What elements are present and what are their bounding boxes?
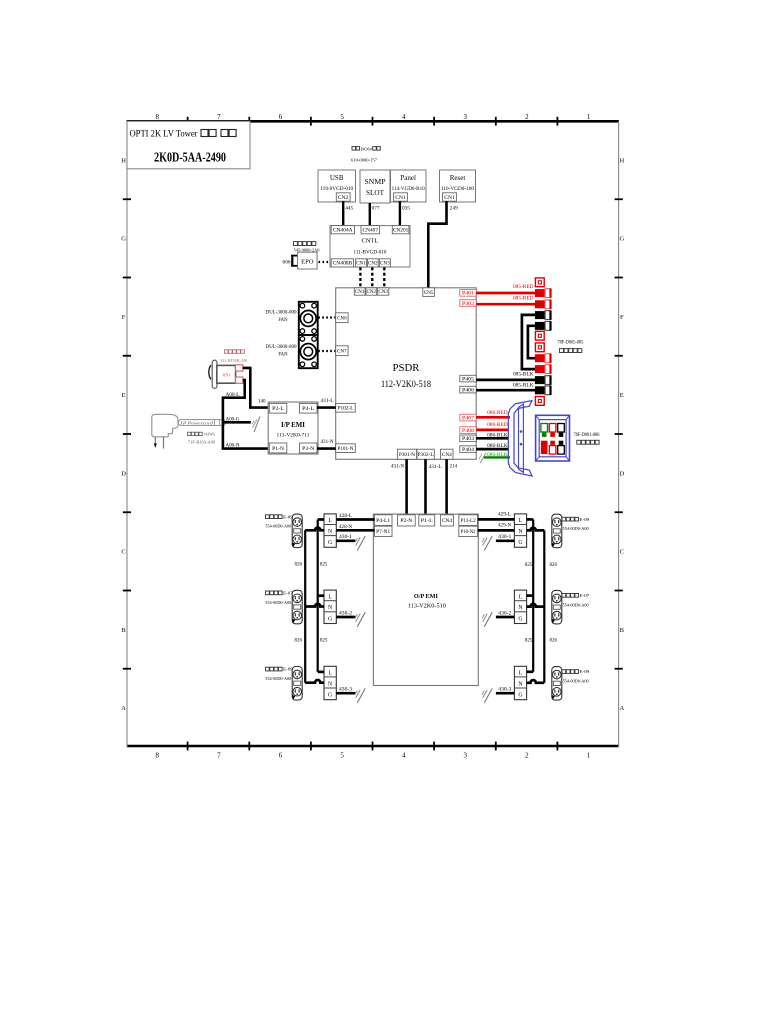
box IP EMI 113-V2K0-711 [268, 402, 318, 454]
connector CN404A on CNTL [331, 226, 354, 234]
box OP EMI 113-V2K0-510 [373, 514, 478, 685]
EPO terminal symbol 606 [291, 255, 293, 267]
wire 085-RED PSDR P402 to battery terminal [476, 303, 535, 306]
svg-text:085-BLK: 085-BLK [513, 383, 534, 388]
wire A00-G to chassis ground [223, 421, 251, 424]
wire 085-BLK PSDR P406 to battery terminal [476, 389, 535, 392]
svg-text:085-RED: 085-RED [513, 285, 534, 290]
svg-text:E-09: E-09 [580, 669, 590, 674]
svg-text:E-09: E-09 [283, 667, 293, 672]
ring terminal internal battery 2 [535, 331, 544, 340]
svg-text:L: L [519, 518, 523, 524]
right bus stub N row 3 with hop [527, 680, 545, 683]
left outlet icon row 2 [292, 590, 302, 624]
connector P405 on PSDR right [460, 375, 476, 382]
right outlet label row 2 [562, 594, 566, 598]
svg-text:7: 7 [217, 752, 221, 760]
wire 431-L PSDR P302-L to OP EMI P1-L [424, 459, 427, 515]
svg-text:6: 6 [279, 113, 283, 121]
svg-text:554-00D0-A00: 554-00D0-A00 [265, 524, 292, 529]
svg-text:035: 035 [402, 205, 410, 211]
dotted wire fan1 to CN6 [318, 316, 335, 318]
connector P407 on PSDR right [460, 414, 476, 421]
svg-text:428-N: 428-N [339, 525, 352, 530]
ring terminal internal battery 3 [535, 343, 544, 352]
svg-text:F: F [122, 314, 126, 321]
wire 086-BLK green ground to external connector [484, 456, 510, 458]
svg-text:E-07: E-07 [283, 591, 293, 596]
svg-text:7: 7 [217, 113, 221, 121]
svg-text:2K0D-5AA-2490: 2K0D-5AA-2490 [154, 150, 226, 165]
box CNTL 111-BVGD-010 [330, 226, 410, 267]
connector P1-N on IP EMI [269, 443, 287, 453]
svg-text:870: 870 [223, 373, 231, 378]
right outlet icon row 2 [552, 590, 562, 624]
connector P408 on PSDR right [460, 427, 476, 434]
svg-text:P408: P408 [462, 429, 475, 434]
sheet border frame [127, 120, 620, 123]
svg-text:8: 8 [156, 113, 160, 121]
svg-text:086-RED: 086-RED [487, 411, 508, 416]
wire 431-N IP EMI P3-N to PSDR P101-N [317, 447, 336, 450]
wire 430-3 left ground [336, 692, 355, 695]
svg-text:D: D [121, 470, 126, 477]
left outlet icon row 1 [292, 514, 302, 548]
svg-text:L: L [328, 671, 332, 677]
svg-text:P101-N: P101-N [338, 447, 354, 452]
wire 249 Reset CN1 to PSDR CN5 [428, 201, 446, 288]
right bus stub L row 3 [527, 670, 534, 673]
svg-text:ISO60: ISO60 [361, 146, 373, 151]
left bus stub L row 3 [318, 671, 324, 674]
svg-text:P406: P406 [462, 388, 475, 393]
svg-text:P402: P402 [462, 302, 475, 307]
left outlet label row 2 [266, 591, 270, 595]
left outlet icon row 3 [292, 667, 302, 701]
svg-text:G: G [328, 616, 332, 622]
svg-text:G: G [121, 236, 126, 243]
connector P101-N on PSDR left [336, 444, 356, 453]
label above SNMP slot [352, 147, 356, 151]
svg-text:L: L [328, 594, 332, 600]
svg-text:113-V2K0-711: 113-V2K0-711 [277, 433, 310, 439]
left outlet row 2 terminal block L/N/G [324, 590, 336, 623]
svg-text:P3-N: P3-N [302, 446, 314, 452]
svg-text:CN5: CN5 [424, 291, 434, 296]
svg-text:430-1: 430-1 [498, 535, 512, 540]
connector CN1 on CNTL bottom [356, 259, 367, 267]
svg-text:086-BLK: 086-BLK [487, 453, 508, 458]
connector P7-N1 on OP EMI [375, 526, 393, 536]
svg-text:78F-D081-086: 78F-D081-086 [574, 433, 601, 438]
svg-text:A00-L: A00-L [226, 393, 240, 398]
faston terminal red P402 [535, 300, 545, 308]
svg-text:086-BLK: 086-BLK [487, 434, 508, 439]
svg-text:G: G [328, 693, 332, 699]
faston terminal red P401 [535, 289, 545, 297]
box SNMP SLOT [360, 170, 390, 203]
left bus 825 vertical [317, 520, 319, 672]
svg-text:119-0VGD-010: 119-0VGD-010 [320, 187, 354, 192]
svg-text:430-3: 430-3 [339, 688, 353, 693]
svg-text:086-RED: 086-RED [487, 423, 508, 428]
svg-text:P403: P403 [462, 437, 475, 442]
svg-text:086-BLK: 086-BLK [487, 444, 508, 449]
svg-text:554-00D0-A00: 554-00D0-A00 [563, 526, 590, 531]
dashed wires CNTL CN1-CN3 to PSDR CN1-CN3 [359, 267, 361, 287]
title block box [127, 121, 250, 169]
svg-text:825: 825 [525, 639, 533, 644]
box EPO [298, 252, 318, 269]
svg-text:FAN: FAN [278, 318, 288, 323]
svg-text:3: 3 [464, 113, 468, 121]
svg-text:E-09: E-09 [580, 517, 590, 522]
battery loop wire black upper [522, 315, 535, 369]
svg-text:430-2: 430-2 [498, 611, 512, 616]
wire 430-1 right ground [496, 539, 515, 542]
svg-text:P302-L: P302-L [418, 453, 434, 458]
svg-text:E: E [122, 392, 126, 399]
breaker terminal tabs [236, 365, 243, 371]
svg-text:G: G [518, 616, 522, 622]
connector CN2 on PSDR top [366, 288, 377, 295]
svg-text:P404: P404 [462, 448, 475, 453]
svg-text:085-RED: 085-RED [513, 296, 534, 301]
svg-text:214: 214 [450, 464, 458, 469]
connector CN5 on PSDR top [423, 288, 435, 297]
left ground hatch row 3 [357, 688, 365, 703]
svg-text:2: 2 [525, 752, 529, 760]
dotted wire fan2 to CN7 [318, 350, 335, 352]
wire A00-L breaker to input junction [223, 380, 269, 449]
svg-text:L: L [328, 518, 332, 524]
svg-text:Reset: Reset [450, 174, 466, 182]
left bus stub N row 2 with hop [305, 604, 324, 607]
svg-text:A00-N: A00-N [226, 444, 240, 449]
box Panel 114-VGD0-B10 [391, 170, 427, 202]
svg-text:554-00D0-A00: 554-00D0-A00 [563, 679, 590, 684]
connector P2-L on IP EMI [269, 403, 287, 413]
svg-text:P301-N: P301-N [399, 453, 415, 458]
cord label 14AWG [188, 432, 191, 435]
connector CN4 on OP EMI [441, 515, 454, 526]
connector CN201 on CNTL [392, 226, 409, 234]
svg-text:112-V2K0-518: 112-V2K0-518 [381, 379, 431, 389]
faston terminal black P406 [535, 386, 545, 394]
right bus stub L row 1 [527, 518, 534, 521]
external battery connector front view [536, 415, 570, 461]
svg-text:D: D [619, 470, 624, 477]
connector P406 on PSDR right [460, 386, 476, 393]
box USB 119-0VGD-010 [318, 170, 356, 202]
wire 086-BLK PSDR P403 to external connector [476, 437, 508, 440]
svg-text:DUL-3000-000: DUL-3000-000 [266, 345, 298, 350]
connector P2-N on OP EMI [398, 515, 416, 526]
plug prong 2 [163, 437, 165, 449]
wire 430-1 left ground [336, 539, 355, 542]
svg-text:5: 5 [340, 113, 344, 121]
svg-text:Panel: Panel [400, 174, 416, 182]
chassis ground symbol A00-G [254, 417, 260, 433]
svg-text:H: H [619, 157, 624, 164]
svg-text:CN1: CN1 [356, 262, 366, 267]
right outlet icon row 3 [552, 667, 562, 701]
svg-text:P1-N: P1-N [272, 446, 284, 452]
svg-text:826: 826 [549, 639, 557, 644]
svg-text:I/P EMI: I/P EMI [281, 422, 305, 429]
wire 429-N OP EMI P10-N2 to block [478, 529, 515, 532]
svg-text:P13-L2: P13-L2 [461, 519, 477, 524]
svg-text:826: 826 [295, 639, 303, 644]
connector P404 on PSDR right [460, 446, 476, 453]
wire 428-N block to OP EMI P7-N1 [336, 529, 374, 532]
svg-text:825: 825 [320, 639, 328, 644]
svg-text:78F-D065-085: 78F-D065-085 [558, 341, 585, 346]
box PSDR 112-V2K0-518 [336, 288, 477, 460]
svg-text:077: 077 [372, 205, 380, 211]
circuit breaker 870 bezel [209, 365, 211, 379]
svg-text:P1-L: P1-L [421, 519, 433, 524]
svg-text:431-L: 431-L [429, 465, 442, 470]
svg-text:G: G [328, 540, 332, 546]
svg-text:DUL-3000-000: DUL-3000-000 [266, 311, 298, 316]
svg-text:SLOT: SLOT [366, 190, 385, 197]
svg-text:CN3: CN3 [378, 290, 388, 295]
right outlet row 1 terminal block L/N/G [514, 514, 526, 547]
svg-text:554-00D0-A00: 554-00D0-A00 [563, 602, 590, 607]
svg-text:G: G [518, 693, 522, 699]
label terminal connector 545-9000-2A0 [294, 242, 298, 246]
svg-text:P407: P407 [462, 416, 475, 421]
fan 1 DUL-3000-000 [299, 302, 318, 335]
svg-text:4: 4 [402, 752, 406, 760]
connector P3-N on IP EMI [300, 443, 318, 453]
svg-text:P7-N1: P7-N1 [376, 530, 391, 535]
ring terminal internal battery 4 [535, 397, 544, 406]
connector P102-L on PSDR left [336, 403, 356, 412]
faston terminal black loop A [535, 311, 545, 319]
svg-text:606: 606 [283, 260, 291, 266]
connector P401 on PSDR right [460, 290, 476, 297]
svg-text:445: 445 [345, 205, 353, 211]
connector P402 on PSDR right [460, 300, 476, 307]
connector P10-N2 on OP EMI [459, 526, 478, 536]
fan 2 DUL-3000-000 [299, 335, 318, 368]
wire 428-L block to OP EMI P4-L1 [336, 518, 374, 521]
svg-text:F: F [620, 314, 624, 321]
svg-text:5: 5 [340, 752, 344, 760]
svg-text:CN2: CN2 [368, 262, 378, 267]
svg-text:P401: P401 [462, 292, 475, 297]
connector CN1 on Panel [394, 193, 408, 201]
svg-text:P10-N2: P10-N2 [461, 530, 476, 535]
svg-text:428-L: 428-L [339, 514, 352, 519]
svg-text:FAN: FAN [278, 353, 288, 358]
svg-text:P2-N: P2-N [400, 519, 412, 524]
svg-text:826: 826 [295, 563, 303, 568]
svg-text:P405: P405 [462, 377, 475, 382]
svg-text:114-VGD0-B10: 114-VGD0-B10 [392, 187, 426, 192]
svg-text:CN4: CN4 [442, 453, 453, 458]
svg-text:P4-L1: P4-L1 [376, 519, 391, 524]
left bus stub L row 2 [318, 594, 324, 597]
svg-text:P2-L: P2-L [272, 406, 284, 412]
connector P301-N on PSDR bottom [397, 449, 416, 459]
connector P1-L on OP EMI [419, 515, 435, 526]
svg-text:554-00D0-A00: 554-00D0-A00 [265, 676, 292, 681]
svg-text:CN3: CN3 [380, 262, 390, 267]
wire 430-3 right ground [496, 692, 515, 695]
right bus 826 vertical [543, 530, 545, 682]
svg-text:CN201: CN201 [393, 229, 409, 234]
svg-text:A00-G: A00-G [226, 417, 240, 422]
svg-text:431-N: 431-N [391, 464, 404, 469]
svg-text:825: 825 [525, 563, 533, 568]
svg-text:G: G [518, 540, 522, 546]
svg-text:113-V2K0-510: 113-V2K0-510 [408, 604, 446, 610]
left outlet row 1 terminal block L/N/G [324, 514, 336, 547]
power cord 1P Powercord [178, 420, 225, 426]
svg-text:L: L [519, 671, 523, 677]
left bus 826 vertical [304, 530, 306, 682]
right bus stub N row 2 with hop [527, 604, 545, 607]
wire 085-BLK PSDR P405 to battery terminal [476, 379, 535, 382]
svg-text:CN2: CN2 [367, 290, 377, 295]
connector CN407 on CNTL [361, 226, 380, 234]
connector P4-L1 on OP EMI [375, 515, 393, 526]
right ground hatch row 1 [484, 536, 492, 551]
svg-text:A: A [619, 705, 624, 712]
svg-text:CN1: CN1 [444, 196, 455, 201]
svg-text:SNMP: SNMP [365, 179, 386, 186]
svg-text:EPO: EPO [301, 258, 314, 265]
svg-text:111-BVGD-010: 111-BVGD-010 [354, 250, 387, 256]
box Reset 110-VGD0-100 [440, 170, 476, 202]
svg-text:E: E [620, 392, 624, 399]
svg-text:G: G [619, 236, 624, 243]
connector P4-L on IP EMI [300, 403, 318, 413]
faston terminal black loop B [535, 322, 545, 330]
right bus 825 vertical [532, 519, 534, 671]
svg-text:826: 826 [549, 563, 557, 568]
right outlet icon row 1 [552, 514, 562, 548]
connector CN4 on PSDR bottom [441, 449, 454, 459]
connector CN1 on PSDR top [354, 288, 365, 295]
svg-text:CN408B: CN408B [333, 262, 353, 267]
border zone tick marks [187, 117, 189, 126]
connector CN3 on CNTL bottom [379, 259, 390, 267]
svg-text:3: 3 [464, 752, 468, 760]
connector contacts colored [541, 424, 548, 433]
svg-text:8: 8 [156, 752, 160, 760]
svg-text:14AWG: 14AWG [203, 432, 215, 436]
left ground hatch row 1 [357, 536, 365, 551]
faston terminal red loop B [535, 354, 545, 362]
svg-text:4: 4 [402, 113, 406, 121]
breaker label 512-BF50K-200 [225, 350, 229, 354]
left outlet row 3 terminal block L/N/G [324, 666, 336, 699]
svg-text:6: 6 [279, 752, 283, 760]
right ground hatch row 3 [484, 688, 492, 703]
svg-text:430-2: 430-2 [339, 611, 353, 616]
wire 085-RED PSDR P401 to battery terminal [476, 292, 535, 295]
dotted wire EPO to CN408B [319, 261, 331, 263]
left outlet label row 3 [266, 667, 270, 671]
svg-text:431-N: 431-N [321, 440, 334, 445]
connector P403 on PSDR right [460, 435, 476, 442]
svg-text:085-BLK: 085-BLK [513, 372, 534, 377]
connector CN2 on CNTL bottom [367, 259, 378, 267]
plug prong with arrow [154, 437, 156, 444]
svg-text:CNTL: CNTL [362, 238, 379, 245]
svg-text:A: A [121, 705, 126, 712]
right outlet label row 3 [562, 670, 566, 674]
wire 086-BLK PSDR P404 to external connector [476, 448, 509, 451]
faston terminal black P405 [535, 376, 545, 384]
wire 086-RED PSDR P407 to external connector [476, 416, 510, 419]
connector CN3 on PSDR top [378, 288, 389, 295]
svg-text:OPTI 2K LV Tower: OPTI 2K LV Tower [130, 129, 198, 139]
svg-text:E-09: E-09 [283, 514, 293, 519]
svg-text:H: H [121, 157, 126, 164]
wire 140 breaker to IP EMI P2-L [243, 368, 269, 408]
left bus stub N row 3 with hop [305, 680, 324, 683]
wire 431-N PSDR P301-N to OP EMI P2-N [405, 459, 408, 515]
svg-text:554-00D0-A00: 554-00D0-A00 [265, 600, 292, 605]
svg-text:B: B [121, 627, 126, 634]
svg-text:P102-L: P102-L [338, 407, 354, 412]
circuit breaker 870 body [217, 365, 236, 383]
svg-text:O/P EMI: O/P EMI [414, 593, 438, 600]
svg-text:P4-L: P4-L [302, 406, 314, 412]
connector P302-L on PSDR bottom [417, 449, 434, 459]
left bus stub N row 1 with hop [305, 528, 324, 531]
faston terminal red loop A [535, 365, 545, 373]
wire 214 PSDR CN4 to OP EMI CN4 [445, 459, 448, 515]
svg-text:CN1: CN1 [395, 196, 406, 201]
svg-text:PSDR: PSDR [393, 362, 421, 374]
left bus stub L row 1 [318, 518, 324, 521]
right outlet label row 1 [562, 517, 566, 521]
connector P13-L2 on OP EMI [459, 515, 478, 526]
AC plug 71F-B103-A00 [152, 414, 178, 437]
svg-text:429-N: 429-N [498, 524, 511, 529]
connector CN408B on CNTL [331, 259, 353, 267]
svg-text:CN6: CN6 [337, 316, 347, 321]
svg-text:1P Powercord: 1P Powercord [180, 421, 214, 426]
wire 077 SNMP to CNTL CN407 [369, 203, 371, 226]
svg-text:249: 249 [450, 205, 458, 211]
wire 035 Panel CN1 to CNTL CN201 [399, 201, 401, 225]
svg-text:C: C [121, 549, 125, 556]
svg-text:CN404A: CN404A [333, 229, 353, 234]
svg-text:140: 140 [258, 400, 266, 405]
right outlet row 2 terminal block L/N/G [514, 590, 526, 623]
wire 429-L OP EMI P13-L2 to block [478, 518, 515, 521]
ring terminal internal battery 1 [535, 278, 544, 287]
svg-text:512-BF50K-200: 512-BF50K-200 [220, 358, 248, 363]
svg-text:1: 1 [587, 752, 591, 760]
connector CN1 on Reset [443, 193, 457, 201]
svg-text:B: B [620, 627, 625, 634]
svg-text:CN7: CN7 [337, 349, 347, 354]
svg-text:430-1: 430-1 [339, 535, 353, 540]
svg-text:825: 825 [320, 563, 328, 568]
wire 445 USB CN2 to CNTL CN404A [342, 201, 344, 225]
svg-text:USB: USB [330, 174, 344, 182]
svg-text:C: C [620, 549, 624, 556]
svg-text:429-L: 429-L [498, 513, 511, 518]
